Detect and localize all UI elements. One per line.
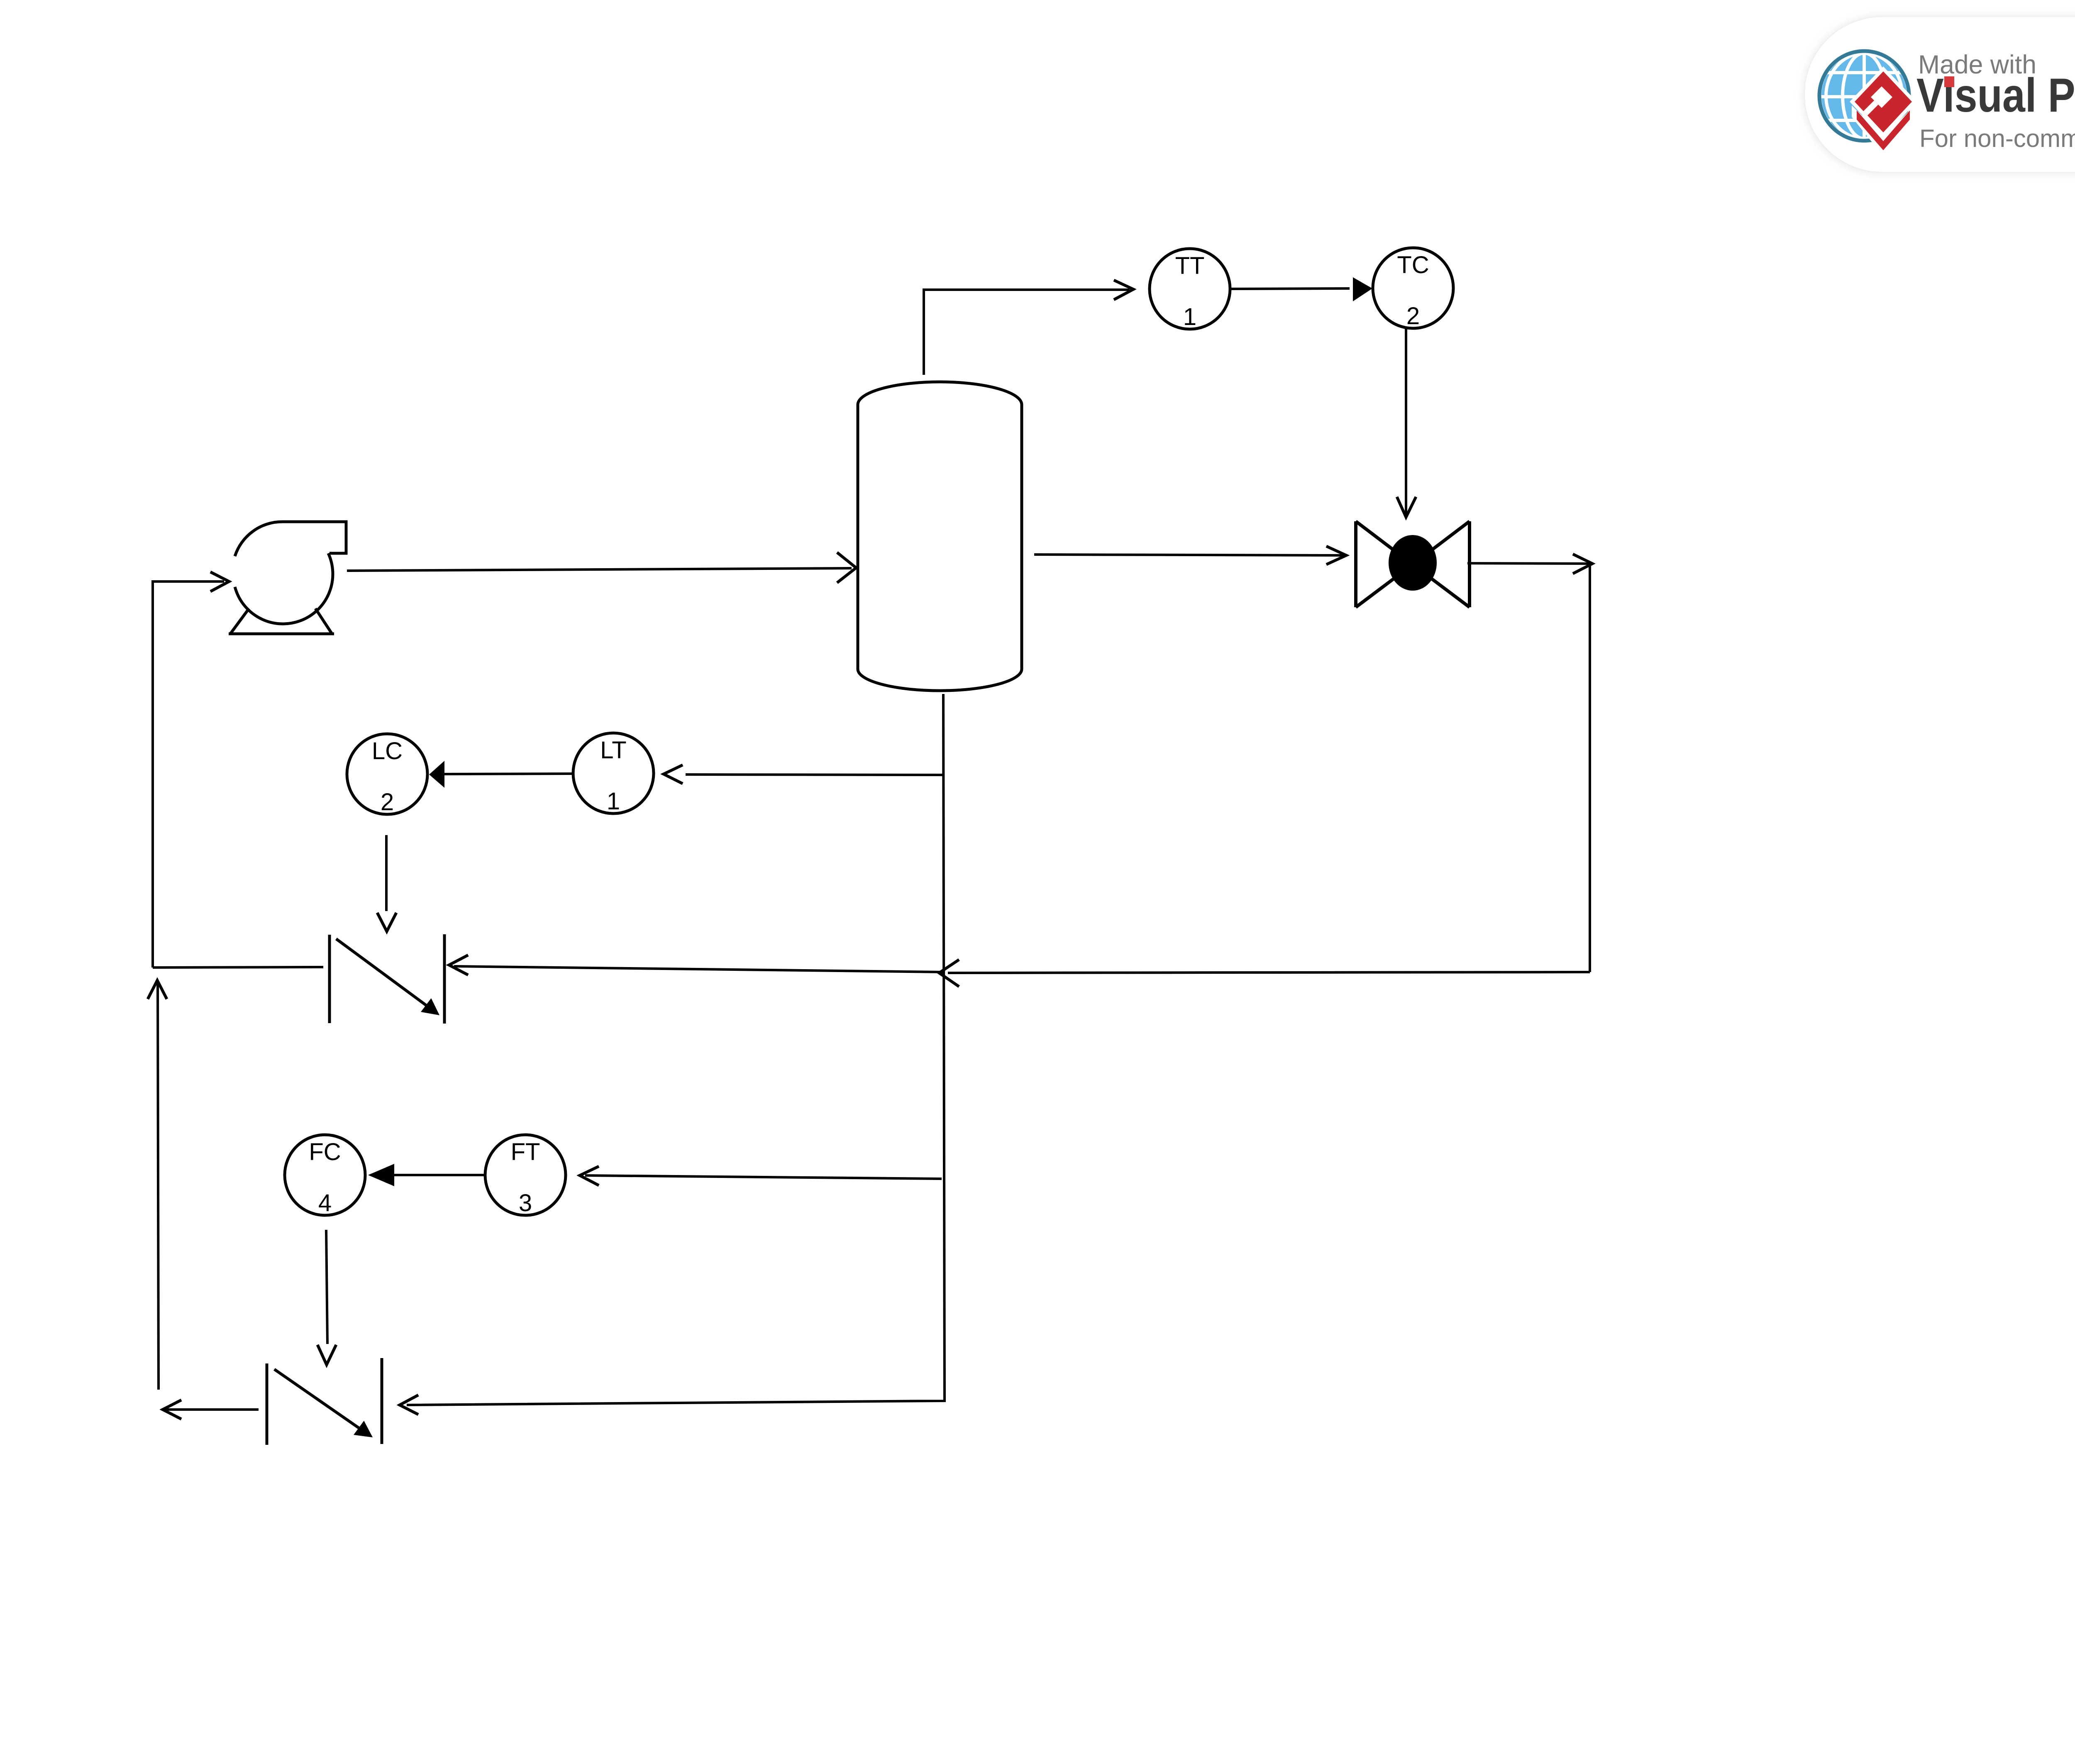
wire vessel top riser to TT [924,280,1133,375]
wire junction 2 output left [163,1400,259,1419]
instrument FT 3 [485,1135,566,1217]
svg-text:2: 2 [381,789,394,816]
wire TT to TC with solid arrow [1231,277,1372,301]
vessel T1 [858,382,1022,691]
wire FC down to junction 2 [317,1230,336,1365]
instrument LT 1 [573,733,654,815]
svg-text:TC: TC [1397,252,1429,279]
instrument TT 1 [1150,249,1230,330]
wire vessel outlet to valve [1034,546,1346,564]
wire flow tap to FT [580,1166,942,1185]
svg-text:Visual Paradigm: Visual Paradigm [1916,69,2075,122]
svg-text:LC: LC [372,738,403,765]
svg-text:LT: LT [600,737,626,764]
VP diamond logo [1850,66,1917,156]
junction symbol J1 diagonal arrow [336,939,439,1015]
instrument TC 2 [1373,248,1453,330]
pump P1 [229,522,346,634]
junction symbol J2 diagonal arrow [274,1369,373,1437]
wire LC down to junction 1 [377,835,396,931]
wire right return horizontal to vessel drop [939,960,1590,987]
svg-text:3: 3 [519,1190,532,1217]
instrument LC 2 [347,734,427,816]
junction symbol J1 right bar [443,934,446,1024]
svg-text:For non-commercial use: For non-commercial use [1919,125,2075,152]
wire pump outlet to vessel [347,552,856,583]
wire FT to FC with solid arrow [368,1164,484,1186]
svg-text:FT: FT [511,1139,540,1165]
svg-text:1: 1 [607,788,620,815]
instrument FC 4 [285,1135,365,1217]
svg-text:TT: TT [1175,252,1205,279]
wire valve outlet [1467,554,1592,574]
wire vessel level tap to LT [664,765,943,784]
wire return to junction 1 [449,955,944,975]
junction symbol J2 left bar [266,1363,269,1445]
Visual Paradigm badge [1804,17,2075,172]
control valve V1 [1356,521,1470,607]
junction symbol J2 right bar [381,1358,383,1444]
wire right return drop [1589,565,1591,972]
wire vessel bottom drop [943,694,945,1400]
wire LT to LC with solid arrow [429,761,572,788]
globe icon [1819,51,1909,141]
svg-text:1: 1 [1183,303,1196,330]
svg-text:4: 4 [318,1190,332,1217]
wire left corner to junction 1 [153,967,323,968]
svg-text:2: 2 [1406,303,1420,330]
svg-text:FC: FC [309,1139,341,1165]
wire bottom corner horizontal to junction 2 [400,1395,945,1415]
wire mid riser up arrow [148,980,167,1390]
wire pump inlet with corner from left riser [153,572,229,968]
wire TC down to valve actuator [1397,328,1416,517]
badge red i dots [1944,76,1954,87]
junction symbol J1 left bar [328,935,331,1023]
